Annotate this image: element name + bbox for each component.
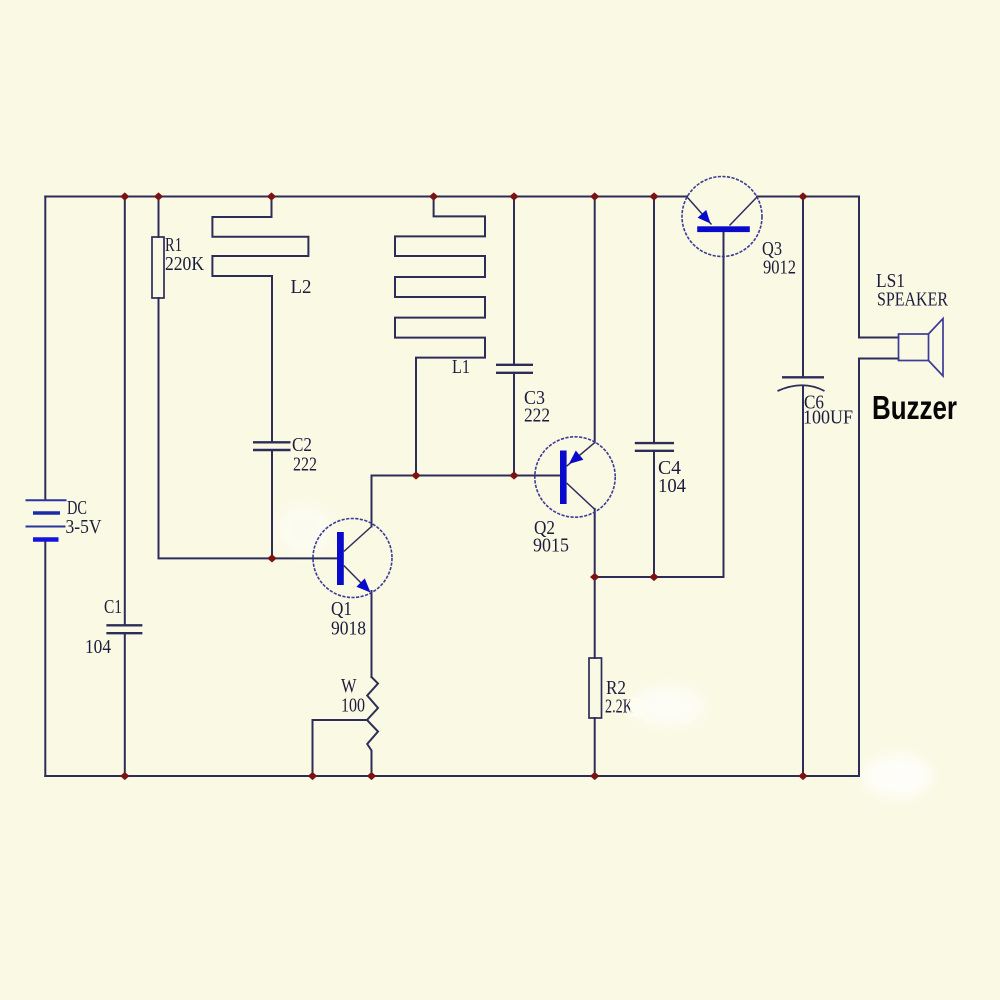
wire speaker bottom stub + return to bottom rail (859, 359, 899, 777)
resistor R2 (589, 658, 602, 718)
inductor L2 meander (212, 197, 308, 443)
svg-text:L2: L2 (291, 276, 312, 298)
capacitor C4 (635, 443, 674, 451)
wire C1 branch lower (124, 633, 126, 776)
transistor Q2 (535, 437, 615, 517)
speaker LS1 symbol (899, 319, 944, 377)
capacitor C6 electrolytic (778, 377, 825, 391)
svg-text:2.2K: 2.2K (605, 696, 633, 718)
junction dots top rail (120, 192, 129, 200)
wire C6 branch lower (802, 386, 804, 776)
white patch left of Q1 (277, 504, 333, 556)
svg-text:L1: L1 (452, 356, 470, 378)
wire Q1 emitter down to W (371, 591, 373, 677)
svg-text:9012: 9012 (763, 257, 796, 279)
svg-text:9015: 9015 (533, 535, 569, 557)
wire Q2 collector down (594, 509, 596, 577)
wire top rail left of Q3 (45, 196, 687, 198)
resistor R1 (152, 237, 164, 298)
wire C2 bottom to base link (271, 450, 273, 558)
svg-text:222: 222 (524, 405, 550, 427)
wire C4 branch lower (653, 451, 655, 577)
svg-text:Buzzer: Buzzer (872, 389, 957, 426)
white patch bottom right (864, 754, 932, 798)
junction dots bottom rail (120, 772, 129, 780)
capacitor C3 (496, 365, 533, 373)
battery DC 3-5V (26, 500, 67, 539)
capacitor C2 (253, 442, 291, 450)
wire W tap to bottom rail (313, 720, 368, 776)
wire C4 branch upper (653, 197, 655, 444)
svg-text:100: 100 (341, 695, 365, 717)
wire R1 branch lower + base link to Q1 (159, 298, 338, 558)
junction dot C2/base link (267, 554, 276, 562)
transistor Q3 (682, 177, 762, 257)
wire C3 branch upper (513, 197, 515, 365)
capacitor C1 (106, 625, 142, 633)
wire R1 branch upper (158, 197, 160, 238)
svg-text:220K: 220K (165, 253, 204, 275)
wire Q1 collector riser and link to Q2 base (372, 476, 561, 527)
wire R2 bottom lead (594, 718, 596, 776)
junction dot C4 lower (649, 573, 658, 581)
svg-text:3-5V: 3-5V (66, 516, 102, 538)
wire left edge top (rail to battery) (44, 197, 46, 501)
junction dot C3/link (509, 471, 518, 479)
svg-text:222: 222 (293, 454, 317, 476)
white patch near R2 label (632, 686, 704, 726)
junction dot Q2 collector link (590, 573, 599, 581)
svg-text:9018: 9018 (331, 618, 366, 640)
wire Q2 emitter riser to top rail (594, 197, 596, 443)
inductor L1 meander (395, 197, 485, 476)
wire bottom rail (45, 775, 859, 777)
wire C6 branch upper (802, 197, 804, 378)
wire C1 branch upper (124, 197, 126, 626)
potentiometer W zigzag (367, 677, 378, 776)
svg-text:C1: C1 (104, 596, 122, 618)
wire left edge bottom (battery to bottom rail) (44, 542, 46, 777)
wire C3 branch lower (513, 373, 515, 476)
wire top rail right of Q3 (757, 196, 859, 198)
svg-text:104: 104 (658, 475, 686, 497)
svg-text:104: 104 (85, 636, 111, 658)
svg-text:100UF: 100UF (803, 407, 853, 429)
wire R2 top lead (594, 577, 596, 658)
wire lower link to Q3 base (595, 232, 724, 577)
white clip over K of 2.2K (630, 697, 644, 717)
wire speaker branch upper + top stub (859, 197, 899, 338)
transistor Q1 (313, 519, 392, 598)
junction dot L1/link (411, 471, 420, 479)
svg-text:SPEAKER: SPEAKER (877, 289, 949, 311)
